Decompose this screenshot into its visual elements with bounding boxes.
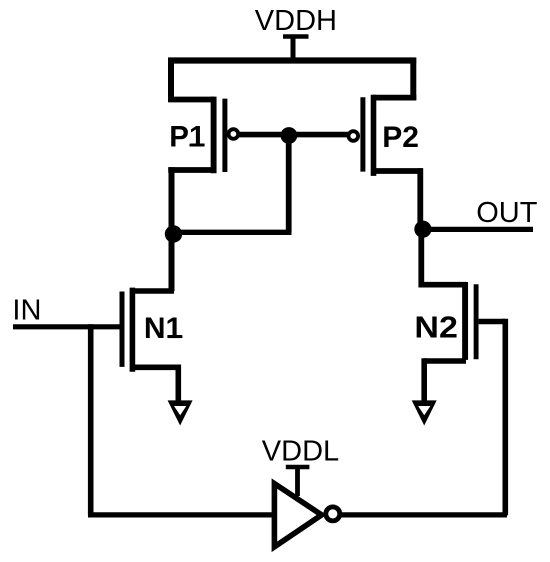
svg-text:VDDL: VDDL xyxy=(262,435,339,467)
svg-text:N2: N2 xyxy=(414,310,458,345)
svg-text:OUT: OUT xyxy=(476,197,538,229)
svg-text:N1: N1 xyxy=(144,312,182,345)
svg-text:P1: P1 xyxy=(169,120,205,153)
svg-text:P2: P2 xyxy=(382,121,419,154)
svg-text:VDDH: VDDH xyxy=(255,5,337,37)
svg-text:IN: IN xyxy=(12,294,41,326)
